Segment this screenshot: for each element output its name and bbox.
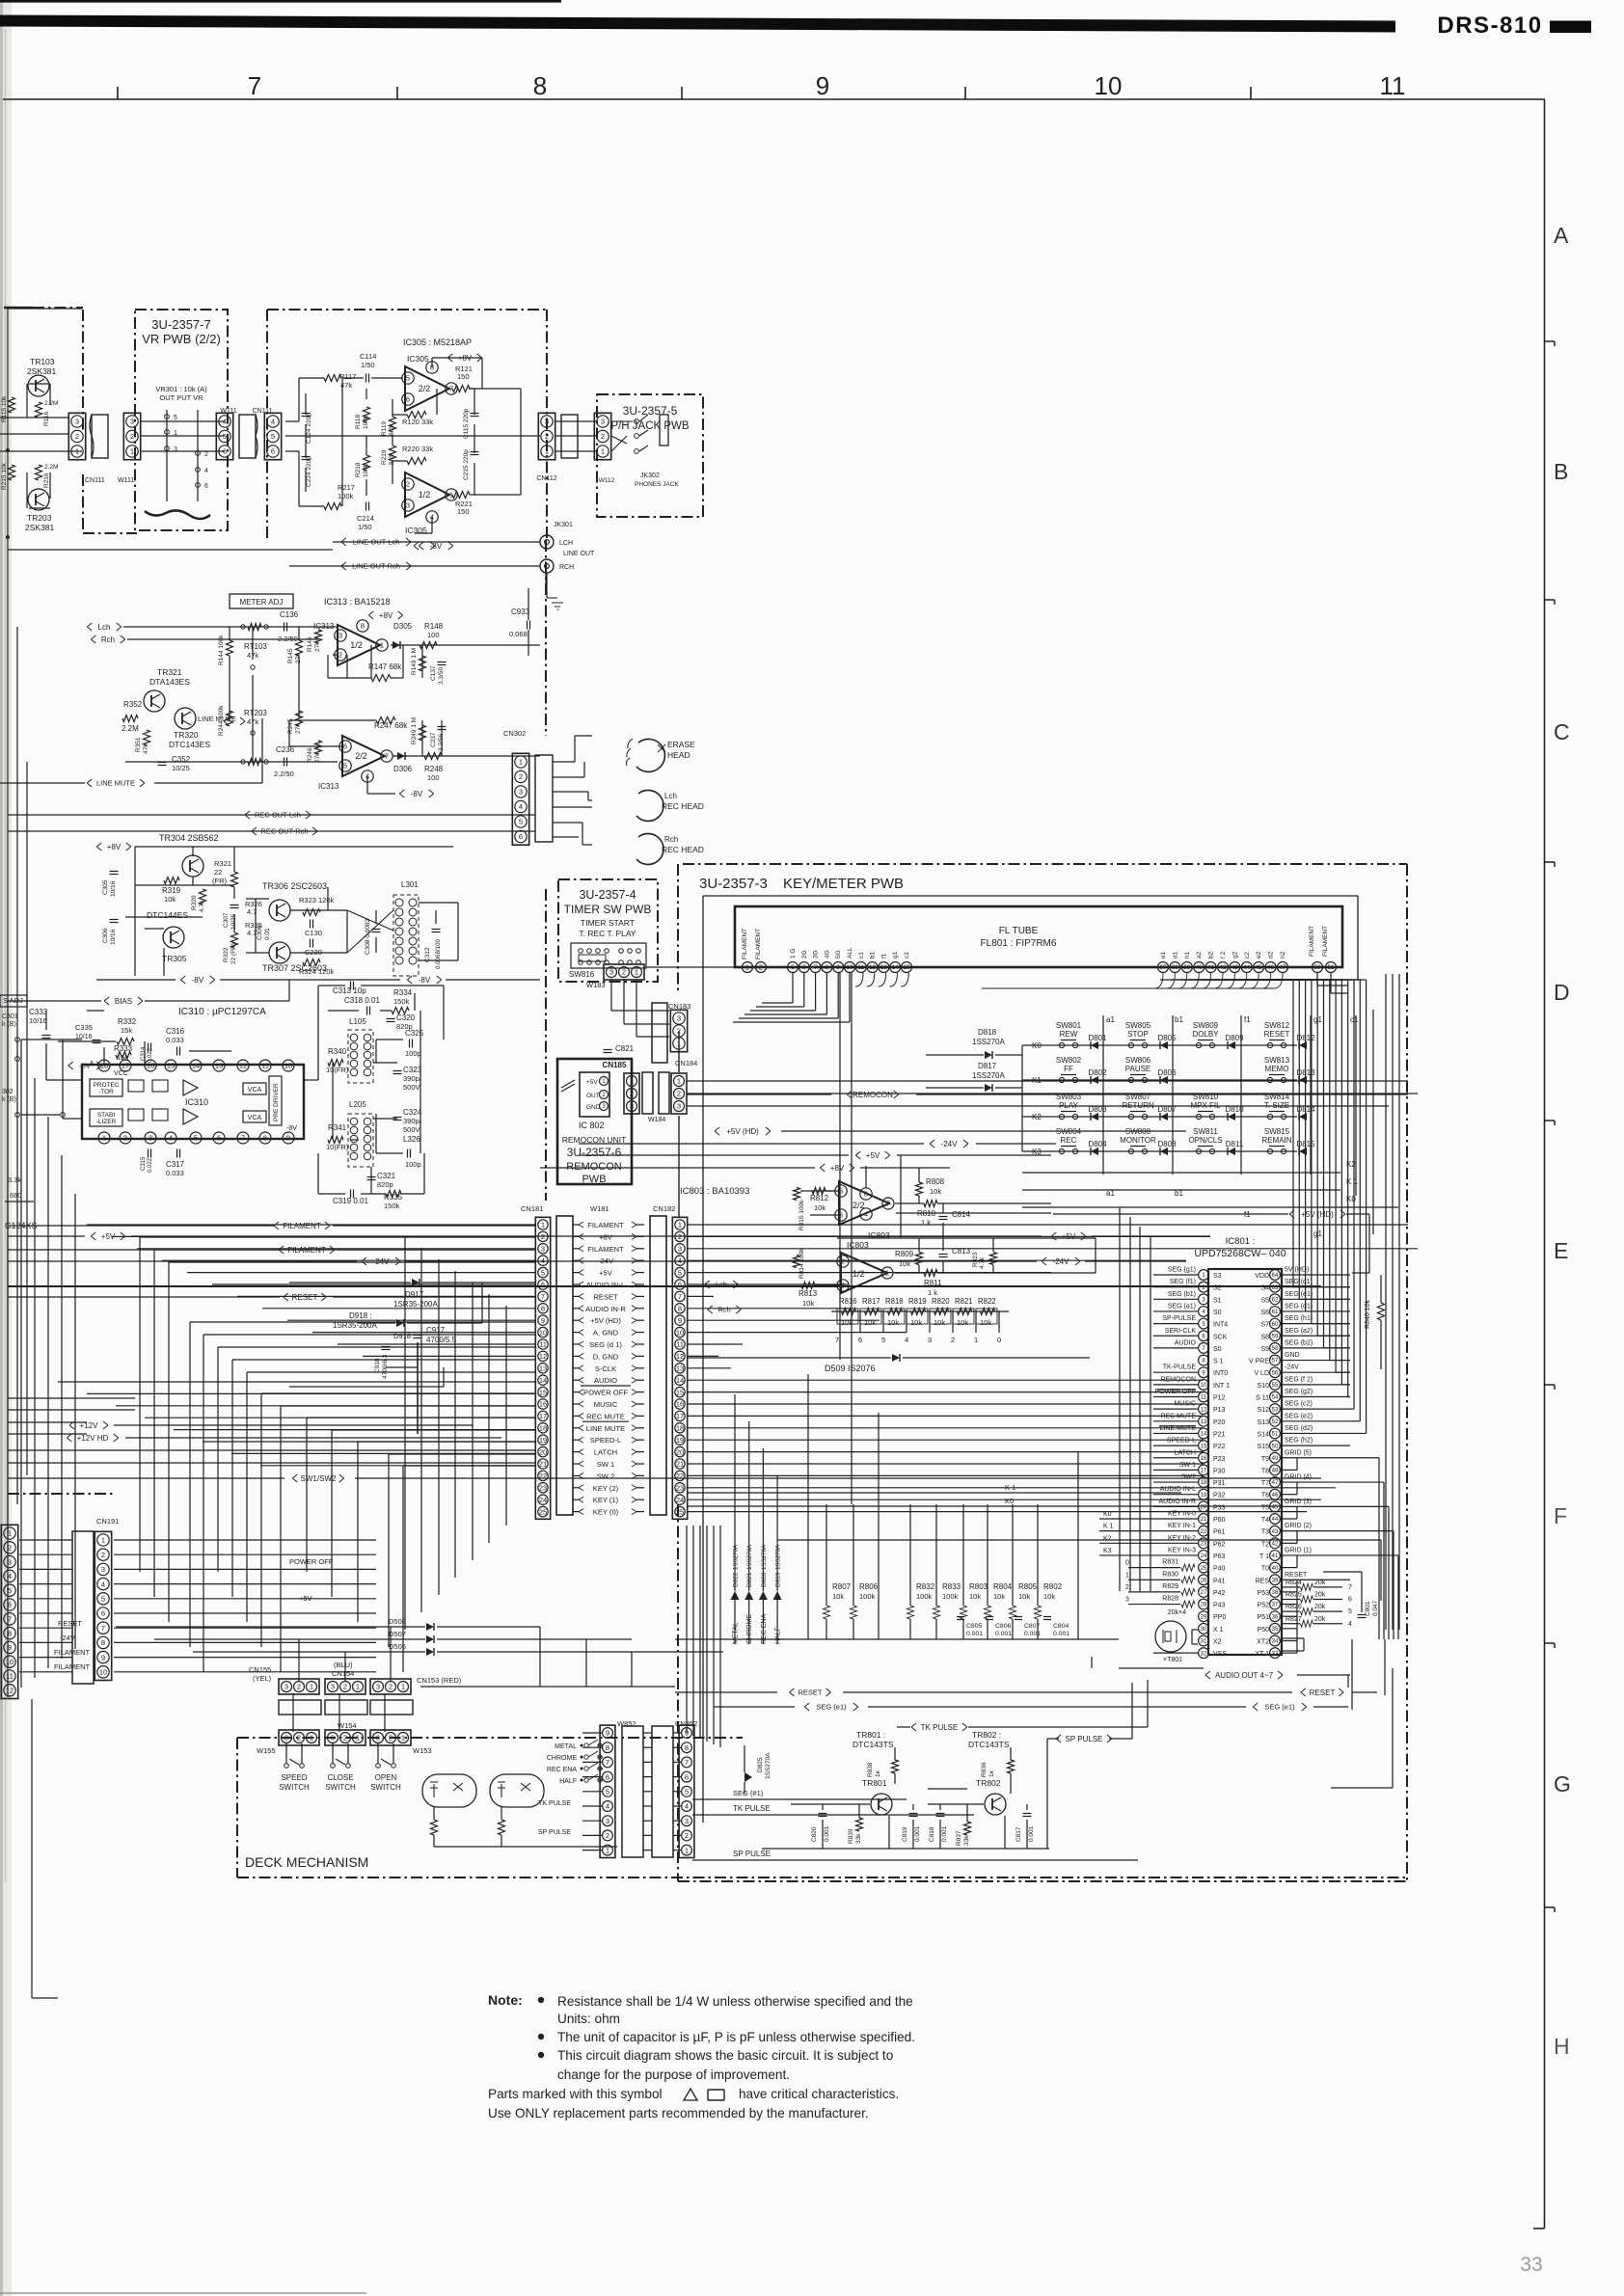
wires out of CN184 [687,1080,1408,1082]
svg-text:R341: R341 [328,1123,347,1132]
svg-text:21: 21 [1201,1517,1207,1523]
svg-text:12: 12 [869,965,876,971]
svg-text:+5V: +5V [599,1269,613,1278]
svg-text:3: 3 [678,1245,682,1254]
svg-text:R826: R826 [1286,1604,1302,1610]
svg-text:REC MUTE: REC MUTE [586,1412,625,1420]
svg-text:C335: C335 [75,1023,93,1032]
svg-text:SW2: SW2 [1181,1474,1196,1481]
svg-text:TK PULSE: TK PULSE [921,1723,959,1732]
svg-text:ALL: ALL [847,947,853,959]
svg-text:14: 14 [1201,1432,1207,1438]
svg-text:RT103: RT103 [244,642,267,651]
svg-text:+8V: +8V [599,1232,613,1241]
svg-text:OUT PUT VR: OUT PUT VR [159,393,203,402]
svg-text:R827: R827 [1286,1616,1302,1623]
svg-text:11: 11 [858,965,865,971]
svg-text:REMOCON: REMOCON [566,1161,622,1173]
left vertical rails [7,309,9,1533]
left page-edge shading [0,0,3,2296]
svg-text:10: 10 [6,1658,14,1666]
svg-text:5: 5 [606,1788,609,1796]
svg-text:15: 15 [1201,1444,1207,1449]
svg-text:58: 58 [1272,1346,1279,1352]
svg-text:SEG (d 1): SEG (d 1) [589,1340,622,1349]
svg-text:IC305 : M5218AP: IC305 : M5218AP [403,338,472,347]
svg-text:S4: S4 [1260,1285,1269,1292]
svg-text:15k: 15k [121,1026,132,1035]
svg-text:SW804: SW804 [1056,1127,1082,1136]
svg-text:SERI-CLK: SERI-CLK [1165,1328,1197,1335]
svg-text:10k: 10k [899,1259,910,1268]
svg-text:1: 1 [101,1536,105,1545]
svg-text:46: 46 [1267,965,1274,971]
capacitor C917 4700/5.5 [414,1335,422,1337]
svg-text:SEG (c1): SEG (c1) [1285,1279,1313,1285]
svg-text:6: 6 [1348,1596,1352,1603]
svg-text:R802: R802 [1043,1582,1063,1591]
svg-text:2: 2 [545,432,549,441]
svg-text:R215 10k: R215 10k [1,462,8,490]
svg-text:POWER OFF: POWER OFF [289,1557,334,1566]
svg-text:14: 14 [892,965,899,971]
cable left of CN191 [72,1531,94,1684]
svg-text:8: 8 [678,1305,682,1313]
svg-text:5G: 5G [835,950,842,959]
svg-text:IC310 : µPC1297CA: IC310 : µPC1297CA [178,1007,266,1017]
svg-text:10k: 10k [1043,1592,1055,1601]
svg-text:3: 3 [841,1282,845,1290]
svg-text:2: 2 [678,1232,682,1241]
FL fanout wires [792,973,794,1003]
svg-text:P40: P40 [1213,1566,1226,1573]
svg-text:VR301 : 10k (A): VR301 : 10k (A) [155,385,207,393]
svg-text:3: 3 [685,1817,689,1825]
svg-text:62: 62 [1272,1297,1279,1303]
svg-text:2: 2 [8,1544,12,1553]
svg-text:31: 31 [1201,1639,1207,1645]
svg-text:5: 5 [194,1134,198,1143]
svg-text:5: 5 [685,1788,689,1796]
svg-text:SW814: SW814 [1264,1093,1290,1101]
svg-text:SW808: SW808 [1125,1127,1151,1136]
svg-text:SCK: SCK [1213,1334,1228,1340]
opto resistors [431,1820,438,1835]
svg-text:7: 7 [241,1134,245,1143]
svg-text:3U-2357-4: 3U-2357-4 [579,888,636,902]
svg-text:56: 56 [1272,1370,1279,1376]
svg-text:1/50: 1/50 [361,361,375,369]
svg-text:10/16: 10/16 [110,929,117,945]
svg-text:AUDIO: AUDIO [1175,1339,1197,1346]
svg-text:TR305: TR305 [162,954,187,963]
capacitor C317 0.033 [176,1149,178,1158]
svg-text:4: 4 [685,1802,689,1811]
svg-text:10: 10 [1201,1383,1207,1389]
svg-text:C917: C917 [426,1326,446,1335]
svg-text:TR802: TR802 [976,1778,1001,1788]
svg-text:C321: C321 [377,1172,396,1180]
svg-text:R822: R822 [978,1297,996,1306]
svg-text:5: 5 [678,1268,682,1277]
svg-text:W111: W111 [220,408,236,415]
svg-text:5: 5 [406,374,410,383]
svg-text:CN181: CN181 [521,1204,543,1213]
svg-text:9: 9 [678,1316,682,1325]
svg-text:CN155: CN155 [249,1665,271,1674]
svg-text:R817: R817 [862,1297,880,1306]
svg-text:5: 5 [541,1268,545,1277]
svg-text:55: 55 [1272,1383,1279,1389]
svg-text:SPEED-L: SPEED-L [1167,1438,1196,1445]
diode D917 ISR35-200A [412,1279,420,1286]
svg-text:DOLBY: DOLBY [1192,1030,1219,1039]
svg-text:P43: P43 [1213,1603,1226,1609]
svg-text:SEG (b2): SEG (b2) [1285,1339,1313,1346]
connector CN112 [538,413,555,459]
svg-text:10: 10 [99,1668,107,1677]
svg-text:27k: 27k [314,752,321,763]
svg-text:L105: L105 [349,1017,366,1026]
svg-text:R808: R808 [926,1177,945,1186]
svg-text:INT0: INT0 [1213,1370,1228,1377]
resistor R249 1M [420,725,426,741]
svg-text:SP-PULSE: SP-PULSE [1162,1315,1196,1322]
svg-text:R148: R148 [424,622,444,631]
svg-text:LATCH: LATCH [594,1448,617,1457]
net SEG e1 bottom [714,1706,795,1708]
diode D509 IS2076 [892,1354,900,1362]
svg-text:20: 20 [676,1447,684,1456]
svg-text:2: 2 [622,968,626,977]
resistor R245 27k [296,711,303,726]
svg-text:SPEED-L: SPEED-L [590,1436,622,1445]
capacitor C124 220p [302,413,311,415]
svg-text:R220 33k: R220 33k [402,445,433,453]
svg-text:12: 12 [676,1352,684,1361]
svg-text:14: 14 [676,1376,684,1385]
svg-text:MUSIC: MUSIC [1174,1401,1196,1408]
svg-text:C819: C819 [902,1826,908,1842]
svg-text:R810: R810 [917,1209,936,1218]
svg-text:GND: GND [1285,1352,1300,1359]
svg-text:CN185: CN185 [603,1061,627,1069]
svg-text:LATCH: LATCH [1175,1449,1196,1456]
svg-text:D825: D825 [757,1757,764,1772]
svg-text:LINE OUT: LINE OUT [563,551,595,557]
more bus lines [8,1449,535,1451]
long verticals from CN182 to bottom [686,1526,688,1733]
svg-text:27: 27 [1201,1590,1207,1596]
svg-text:10: 10 [284,1062,292,1070]
svg-text:K2: K2 [1103,1535,1112,1542]
IC801 body [1208,1269,1282,1655]
svg-text:D804: D804 [1088,1140,1107,1148]
svg-text:5: 5 [1348,1608,1352,1615]
svg-text:CN154: CN154 [332,1669,354,1678]
svg-text:REC MUTE: REC MUTE [1160,1413,1196,1419]
svg-text:OPEN: OPEN [375,1773,397,1782]
svg-text:SW806: SW806 [1125,1056,1151,1065]
svg-text:32: 32 [1201,1651,1207,1657]
svg-text:1/2: 1/2 [853,1269,865,1279]
connector W153 [370,1730,411,1745]
svg-text:820p: 820p [377,1180,393,1189]
svg-text:R352: R352 [123,700,143,709]
svg-text:6: 6 [685,1772,689,1781]
svg-text:16: 16 [1201,1456,1207,1462]
svg-text:12: 12 [539,1352,547,1361]
svg-text:W153: W153 [413,1746,432,1755]
audio out bus [1119,1667,1204,1669]
svg-text:PAUSE: PAUSE [1125,1065,1151,1073]
capacitor C323 390p 500V [393,1070,402,1072]
svg-text:P61: P61 [1213,1529,1226,1536]
svg-text:10/16: 10/16 [29,1016,47,1025]
svg-text:+12V HD: +12V HD [77,1434,109,1443]
svg-text:6: 6 [606,1772,609,1781]
svg-text:R340: R340 [328,1047,347,1056]
svg-text:METAL: METAL [555,1743,577,1750]
svg-text:S8: S8 [1260,1334,1269,1340]
svg-text:SEG (#1): SEG (#1) [733,1789,764,1797]
svg-text:C214: C214 [357,514,374,523]
svg-text:R322: R322 [223,947,230,962]
svg-text:5: 5 [881,1336,885,1344]
svg-text:C805: C805 [966,1623,982,1630]
svg-text:P62: P62 [1213,1541,1226,1548]
svg-text:SEG (e1): SEG (e1) [816,1703,847,1712]
svg-text:Lch: Lch [664,792,677,800]
svg-text:17: 17 [676,1412,684,1420]
svg-text:W184: W184 [648,1117,665,1123]
svg-text:PRE DRIVER: PRE DRIVER [273,1083,280,1121]
svg-text:b2: b2 [1208,951,1215,959]
transistor TR203 2SK381 [28,489,49,510]
svg-text:7: 7 [685,1758,689,1767]
svg-text:SW807: SW807 [1125,1093,1151,1101]
svg-text:SW810: SW810 [1193,1093,1219,1101]
svg-text:4.7k: 4.7k [979,1256,986,1269]
svg-text:P20: P20 [1213,1419,1226,1426]
resistor R219 8.2k [390,446,396,461]
svg-text:2: 2 [677,1090,681,1098]
svg-text:37: 37 [1272,1603,1279,1608]
svg-text:a1: a1 [1106,1015,1115,1024]
connector W155 [279,1730,319,1745]
svg-text:SEG (e2): SEG (e2) [1285,1413,1313,1419]
svg-text:PLAY: PLAY [1059,1101,1079,1110]
svg-text:10: 10 [539,1328,547,1337]
svg-text:9: 9 [8,1643,12,1652]
svg-text:SEG (b1): SEG (b1) [1168,1291,1196,1298]
svg-text:SW815: SW815 [1264,1127,1290,1136]
svg-text:6: 6 [223,447,227,456]
svg-text:DTC143TS: DTC143TS [968,1740,1010,1749]
svg-text:0.001: 0.001 [914,1825,921,1842]
diodes D508 D507 D506 [426,1623,434,1631]
svg-text:R219: R219 [381,449,388,465]
svg-text:R324 120k: R324 120k [299,967,335,976]
svg-text:MUSIC: MUSIC [594,1400,618,1409]
connector CN181 strip [535,1217,550,1519]
svg-text:MONITOR: MONITOR [1120,1136,1156,1145]
svg-text:have critical characteristics.: have critical characteristics. [739,2087,899,2101]
svg-text:54: 54 [1272,1395,1279,1401]
svg-text:3U-2357-5: 3U-2357-5 [623,404,678,418]
timer sw pwb box [558,879,658,982]
svg-text:C309: C309 [257,925,263,940]
svg-text:10k: 10k [980,1318,991,1327]
svg-text:0: 0 [1125,1560,1129,1567]
svg-text:T3: T3 [1261,1529,1269,1536]
capacitor C918 4700/6.3 [382,1346,391,1348]
svg-text:41: 41 [1207,965,1214,971]
svg-text:MPX FIL: MPX FIL [1190,1101,1221,1110]
svg-text:INT4: INT4 [1213,1322,1228,1329]
svg-text:S7: S7 [1260,1322,1269,1329]
svg-text:2: 2 [606,1831,609,1840]
svg-text:5: 5 [8,1586,12,1595]
svg-text:P50: P50 [1258,1627,1270,1634]
cable W184 [642,1072,653,1114]
vca boxes [243,1083,266,1094]
svg-text:Resistance shall be 1/4 W unle: Resistance shall be 1/4 W unless otherwi… [557,1994,913,2009]
svg-text:P63: P63 [1213,1553,1226,1560]
svg-text:SEG (a2): SEG (a2) [1285,1328,1313,1335]
remocon arrow symbol [561,1080,575,1092]
cable W181 body [556,1216,573,1515]
svg-text:8: 8 [101,1638,105,1647]
svg-text:R836: R836 [981,1762,988,1777]
svg-text:S9: S9 [1260,1346,1269,1353]
FL tube pin row line [646,966,743,968]
svg-text:2: 2 [541,1232,545,1241]
svg-text:SW816: SW816 [569,970,595,979]
svg-text:7: 7 [541,1292,545,1301]
svg-text:R819: R819 [908,1297,927,1306]
svg-text:38: 38 [1272,1590,1279,1596]
svg-text:3U-2357-6: 3U-2357-6 [567,1146,622,1159]
caps C820 C819 C818 C817 [819,1813,827,1815]
svg-text:+8V: +8V [379,611,393,620]
svg-text:L205: L205 [349,1100,366,1109]
svg-text:b1: b1 [870,951,877,959]
svg-text:12: 12 [1201,1407,1207,1413]
svg-text:R334: R334 [393,988,413,997]
svg-text:METAL: METAL [733,1622,740,1644]
resistor R814 100k [794,1256,800,1268]
wires top-left input [4,307,33,309]
svg-text:GRID (3): GRID (3) [1285,1499,1312,1505]
dash-dot box KEY/METER PWB 3U-2357-3 [683,863,1407,865]
svg-text:T2: T2 [1261,1541,1269,1548]
svg-text:1SS270A: 1SS270A [972,1038,1005,1046]
svg-text:11: 11 [1201,1395,1207,1401]
svg-text:-TOR: -TOR [98,1089,114,1095]
capacitor C224 220p [302,456,311,458]
svg-text:GRID (5): GRID (5) [1285,1449,1312,1456]
svg-text:8.2k: 8.2k [389,423,395,436]
grid wire drops [1350,1457,1379,1459]
svg-text:C315: C315 [141,1156,147,1171]
svg-text:HEAD: HEAD [667,750,690,760]
svg-text:C324: C324 [403,1108,422,1117]
svg-text:0.033: 0.033 [166,1169,184,1177]
svg-text:-8V: -8V [419,976,431,985]
svg-text:47k: 47k [143,743,149,754]
svg-text:11: 11 [6,1672,14,1681]
svg-text:PWB: PWB [582,1174,606,1185]
svg-text:5: 5 [174,415,177,421]
svg-text:100k: 100k [363,415,369,429]
svg-text:2.2/50: 2.2/50 [278,635,298,643]
svg-text:R820: R820 [932,1297,950,1306]
svg-text:R115 10k: R115 10k [1,395,8,422]
svg-text:3: 3 [130,418,134,426]
svg-text:15: 15 [676,1388,684,1396]
jack ground stub [545,573,547,593]
svg-text:KEY IN-0: KEY IN-0 [1168,1511,1196,1518]
svg-text:S0: S0 [1213,1346,1222,1353]
svg-text:7: 7 [678,1292,682,1301]
svg-text:C817: C817 [1015,1826,1022,1842]
svg-text:100k: 100k [338,492,354,500]
svg-text:C130: C130 [305,929,322,937]
svg-text:FILAMENT: FILAMENT [54,1648,91,1657]
svg-text:0.001: 0.001 [1053,1631,1069,1637]
svg-text:R805: R805 [1018,1582,1038,1591]
svg-text:+5V: +5V [586,1079,598,1086]
svg-text:10k: 10k [164,895,176,904]
svg-text:BIAS: BIAS [115,997,132,1006]
svg-text:SWITCH: SWITCH [370,1783,401,1792]
svg-text:3: 3 [630,1102,634,1111]
svg-text:SEG (e1): SEG (e1) [1264,1703,1295,1712]
svg-text:100: 100 [427,631,440,639]
svg-text:3: 3 [284,1683,288,1691]
svg-text:D506: D506 [389,1642,406,1651]
top hairline [0,0,561,3]
svg-text:1: 1 [75,447,79,456]
left page crease line [5,29,7,1882]
svg-text:Use ONLY replacement parts rec: Use ONLY replacement parts recommended b… [488,2106,869,2120]
lower mid bus line [777,1539,1381,1541]
svg-text:R248: R248 [424,765,444,773]
cable CN182 body [650,1216,666,1515]
svg-text:SW813: SW813 [1264,1056,1290,1065]
svg-text:-24V: -24V [1285,1364,1299,1371]
lower cn181 feed lines [58,1381,536,1383]
svg-text:IC313 : BA15218: IC313 : BA15218 [324,597,391,607]
svg-text:D807: D807 [1157,1105,1177,1114]
svg-text:1: 1 [601,447,605,456]
svg-text:RESET: RESET [1264,1030,1290,1039]
svg-text:DTC143TS: DTC143TS [853,1740,894,1749]
svg-text:DECK MECHANISM: DECK MECHANISM [245,1854,368,1870]
capacitor C230 [310,939,311,948]
svg-text:4700/5.5: 4700/5.5 [426,1336,457,1344]
connector CN182 strip [672,1217,687,1519]
svg-text:SP PULSE: SP PULSE [538,1829,571,1836]
svg-text:VCA: VCA [248,1087,262,1094]
net RESET bottom [675,1691,777,1693]
svg-text:VDD: VDD [1255,1273,1269,1280]
svg-text:C114: C114 [360,352,376,361]
close switch [336,1759,345,1765]
svg-text:3: 3 [75,418,79,426]
svg-text:OPN/CLS: OPN/CLS [1188,1136,1222,1145]
